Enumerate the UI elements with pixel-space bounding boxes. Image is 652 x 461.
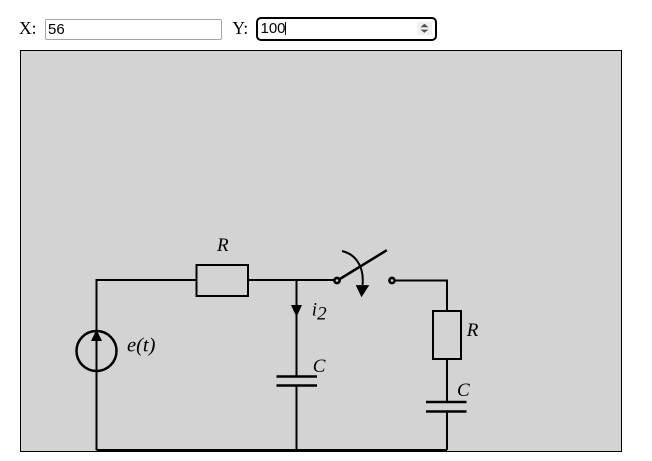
- svg-text:i2: i2: [312, 300, 327, 325]
- svg-text:C: C: [457, 380, 470, 401]
- svg-text:C: C: [313, 356, 326, 377]
- svg-text:R: R: [466, 320, 479, 341]
- svg-text:e(t): e(t): [127, 334, 156, 356]
- svg-text:R: R: [216, 235, 229, 256]
